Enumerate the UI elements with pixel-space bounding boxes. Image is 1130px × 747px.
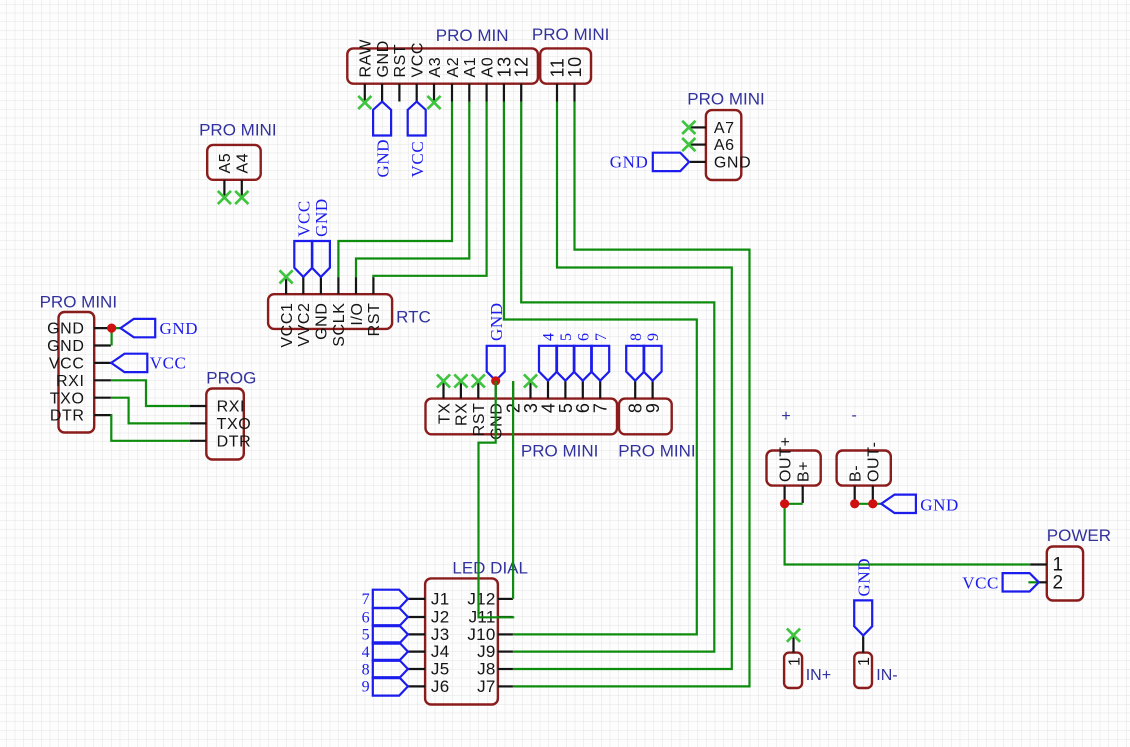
pin B+ of P1 (802, 486, 804, 503)
svg-text:GND: GND (314, 303, 331, 340)
pin J12 of LED DIAL (498, 598, 513, 600)
pin 2 of POWER (1039, 581, 1047, 583)
pin A3 of U1 (433, 84, 435, 102)
pin OUT- of P2 (872, 486, 874, 503)
pin 8 of U7 (634, 381, 636, 399)
net flag 9 at LED DIAL J6 (373, 677, 408, 695)
pin I/O of U4 (355, 277, 357, 294)
net flag 5 at LED DIAL J3 (373, 625, 408, 643)
svg-text:DTR: DTR (217, 433, 252, 450)
net flag GND at U5 (121, 319, 156, 337)
svg-text:GND: GND (47, 321, 84, 338)
pin J9 of LED DIAL (498, 650, 513, 652)
wire U5.GND junction to U5.GND2 (112, 328, 121, 345)
connector U6 PRO MINI body (426, 399, 618, 435)
net flag 8 at LED DIAL J5 (373, 660, 408, 678)
pin A6 of U8 (690, 144, 706, 146)
svg-text:GND: GND (375, 40, 392, 77)
svg-text:1: 1 (856, 657, 873, 667)
svg-text:5: 5 (362, 627, 370, 644)
pin SCLK of U4 (337, 277, 339, 294)
svg-text:J4: J4 (431, 642, 450, 661)
svg-text:VCC: VCC (408, 141, 427, 178)
svg-text:J8: J8 (477, 659, 496, 678)
net flag GND above U4 (312, 241, 330, 277)
net flag VCC at U5 (111, 354, 147, 372)
pin J1 of LED DIAL (408, 598, 425, 600)
svg-text:RST: RST (471, 402, 488, 436)
junction at P1.OUT+ (780, 499, 789, 508)
svg-text:PRO MINI: PRO MINI (199, 121, 276, 140)
svg-text:J6: J6 (431, 677, 450, 696)
svg-text:RAW: RAW (358, 39, 375, 78)
svg-text:6: 6 (575, 333, 592, 341)
svg-text:GND: GND (714, 155, 751, 172)
wire U1.13 to LED DIAL J10 (504, 102, 697, 635)
pin GND of U8 (690, 161, 706, 163)
connector U8 PRO MINI (A7 A6 GND) body (706, 110, 741, 180)
svg-text:DTR: DTR (50, 408, 85, 425)
pin TX of U6 (442, 381, 444, 399)
pin RXI of PROG (190, 405, 207, 407)
no-connect X on U6 pin at x=461 (454, 374, 467, 387)
svg-text:RXI: RXI (56, 373, 84, 390)
svg-text:A4: A4 (235, 153, 252, 174)
pin B- of P2 (854, 486, 856, 503)
svg-text:LED DIAL: LED DIAL (452, 559, 528, 578)
junction at P2.OUT- (868, 499, 877, 508)
connector U5 PRO MINI body (59, 312, 95, 433)
pin J11 of LED DIAL (498, 616, 513, 618)
wire P1.OUT+ to POWER pin1 (785, 504, 1031, 565)
pin A2 of U1 (451, 84, 453, 102)
svg-text:-: - (852, 407, 857, 424)
pin RST of U1 (398, 84, 400, 102)
no-connect X on U4 VCC1 (280, 270, 293, 283)
net flag 8 above U7 (626, 346, 644, 381)
pin 3 of U6 (529, 381, 531, 399)
connector U3 PRO MINI (A5 A4) body (207, 145, 261, 180)
svg-text:TX: TX (436, 403, 453, 425)
pin RX of U6 (460, 381, 462, 399)
pin RST of U4 (372, 277, 374, 294)
svg-text:PROG: PROG (206, 369, 256, 388)
svg-text:J7: J7 (477, 677, 496, 696)
wire U1.12 to LED DIAL J9 (513, 102, 714, 652)
svg-text:1: 1 (786, 657, 803, 667)
net flag GND at U8 (653, 153, 689, 171)
pin GND of U5 (94, 344, 111, 346)
svg-text:A5: A5 (217, 153, 234, 174)
pin J6 of LED DIAL (408, 685, 425, 687)
pin RAW of U1 (364, 84, 366, 102)
pin 9 of U7 (651, 381, 653, 399)
net flag 5 above U6 (556, 346, 574, 381)
net flag VCC below U1 (408, 102, 426, 136)
pin 11 of U2 (556, 84, 558, 102)
wire U6.2 to LED DIAL J12 (512, 381, 514, 599)
svg-text:7: 7 (591, 403, 611, 414)
pin DTR of U5 (94, 414, 111, 416)
pin TXO of U5 (94, 397, 111, 399)
pin 2 of U6 (512, 381, 514, 399)
wire VCC flag to POWER pin2 (1028, 581, 1038, 583)
svg-text:GND: GND (47, 338, 84, 355)
net flag 9 above U7 (644, 346, 662, 381)
net flag GND above IN- (854, 600, 872, 635)
connector J21 LED DIAL body (425, 578, 498, 704)
connector U1 PRO MIN body (347, 48, 538, 83)
svg-text:8: 8 (362, 661, 370, 678)
pin 13 of U1 (503, 84, 505, 102)
svg-text:5: 5 (558, 333, 575, 341)
svg-text:OUT+: OUT+ (777, 436, 794, 482)
net flag 7 above U6 (591, 346, 609, 381)
svg-text:J2: J2 (431, 607, 450, 626)
svg-text:TXO: TXO (50, 390, 85, 407)
svg-text:RXI: RXI (217, 399, 245, 416)
wire U5.DTR to PROG.DTR (111, 415, 190, 441)
pin DTR of PROG (190, 440, 207, 442)
net flag GND below U1 (373, 102, 391, 136)
svg-text:B-: B- (848, 465, 865, 482)
connector U2 PRO MINI body (540, 48, 591, 83)
pin J3 of LED DIAL (408, 633, 425, 635)
svg-text:GND: GND (373, 139, 392, 178)
svg-text:4: 4 (362, 644, 370, 661)
svg-text:RST: RST (366, 303, 383, 337)
connector P4 IN- body (854, 653, 872, 688)
svg-text:GND: GND (160, 319, 199, 338)
pin 4 of U6 (547, 381, 549, 399)
pin VCC of U5 (94, 362, 111, 364)
pin RST of U6 (477, 381, 479, 399)
wire P2 tie to GND flag (855, 503, 882, 505)
svg-text:6: 6 (362, 609, 370, 626)
svg-text:RST: RST (392, 44, 409, 78)
svg-text:A1: A1 (462, 57, 479, 78)
wire U1.A2 to U4.SCLK (338, 102, 452, 278)
svg-text:12: 12 (512, 56, 532, 77)
wire P1.OUT+ to P1.B+ tie (785, 503, 803, 505)
connector P1 (OUT+ B+) body (767, 451, 821, 486)
pin GND of U4 (320, 277, 322, 294)
svg-text:VCC: VCC (150, 354, 187, 373)
pin 10 of U2 (573, 84, 575, 102)
svg-text:VCC: VCC (49, 356, 85, 373)
svg-text:9: 9 (645, 333, 662, 341)
svg-text:A2: A2 (445, 57, 462, 78)
svg-text:VVC2: VVC2 (296, 303, 313, 347)
svg-text:J12: J12 (467, 589, 495, 608)
no-connect X on U3 A5 (218, 191, 231, 204)
svg-text:A3: A3 (427, 57, 444, 78)
svg-text:OUT-: OUT- (866, 441, 883, 482)
svg-text:J10: J10 (467, 625, 495, 644)
svg-text:IN+: IN+ (806, 667, 831, 684)
no-connect X on U1 A3 (427, 96, 440, 109)
pin J8 of LED DIAL (498, 668, 513, 670)
svg-text:VCC1: VCC1 (279, 303, 296, 348)
no-connect X on U6 pin at x=444 (437, 374, 450, 387)
svg-text:PRO MINI: PRO MINI (618, 442, 695, 461)
pin GND of U5 (94, 327, 111, 329)
net flag 4 at LED DIAL J4 (373, 642, 408, 660)
svg-text:VCC: VCC (295, 200, 314, 237)
pin J10 of LED DIAL (498, 633, 513, 635)
net flag 6 at LED DIAL J2 (373, 608, 408, 626)
pin OUT+ of P1 (783, 486, 785, 503)
svg-text:A7: A7 (714, 120, 735, 137)
svg-text:GND: GND (920, 495, 959, 514)
no-connect X on IN+ (787, 629, 800, 642)
no-connect X on U1 RAW (358, 96, 371, 109)
junction on U6 GND pin (491, 376, 500, 385)
connector J20 PROG body (206, 389, 244, 460)
svg-text:PRO MINI: PRO MINI (687, 90, 764, 109)
no-connect X on U6 pin at x=478 (472, 374, 485, 387)
pin VCC1 of U4 (285, 277, 287, 294)
wire U2.10 to LED DIAL J7 (513, 102, 750, 687)
pin 1 of POWER (1030, 563, 1047, 565)
svg-text:VCC: VCC (962, 573, 999, 592)
svg-text:4: 4 (541, 333, 558, 341)
svg-text:J1: J1 (431, 589, 450, 608)
pin 1 of IN- (862, 636, 864, 652)
pin VCC of U1 (416, 84, 418, 102)
svg-text:GND: GND (855, 558, 874, 597)
svg-text:J5: J5 (431, 659, 450, 678)
svg-text:SCLK: SCLK (331, 303, 348, 347)
junction on U5 GND net (107, 324, 116, 333)
net flag 6 above U6 (574, 346, 592, 381)
svg-text:7: 7 (593, 333, 610, 341)
net flag VCC above U4 (294, 241, 312, 277)
pin A4 of U3 (241, 180, 243, 198)
svg-text:IN-: IN- (876, 667, 897, 684)
pin VVC2 of U4 (302, 277, 304, 294)
svg-text:A6: A6 (714, 137, 735, 154)
svg-text:8: 8 (628, 333, 645, 341)
net flag 7 at LED DIAL J1 (373, 590, 408, 608)
pin A7 of U8 (690, 126, 706, 128)
wire U1.A1 to U4.I/O (356, 102, 469, 278)
svg-text:TXO: TXO (217, 416, 252, 433)
pin J7 of LED DIAL (498, 685, 513, 687)
svg-text:RX: RX (454, 403, 471, 426)
pin TXO of PROG (190, 422, 207, 424)
svg-text:+: + (781, 408, 790, 425)
connector P2 (B- OUT-) body (837, 451, 891, 486)
svg-text:POWER: POWER (1047, 526, 1111, 545)
svg-text:7: 7 (362, 591, 370, 608)
pin GND of U1 (381, 84, 383, 102)
RTC U4 body (268, 294, 392, 329)
pin J2 of LED DIAL (408, 616, 425, 618)
pin A0 of U1 (486, 84, 488, 102)
wire U5.RXI to PROG.RXI (111, 380, 190, 406)
wire U2.11 to LED DIAL J8 (513, 102, 732, 670)
svg-text:PRO MINI: PRO MINI (521, 442, 598, 461)
pin RXI of U5 (94, 379, 111, 381)
pin 12 of U1 (520, 84, 522, 102)
svg-text:I/O: I/O (349, 303, 366, 326)
no-connect X on U3 A4 (235, 191, 248, 204)
svg-text:GND: GND (312, 198, 331, 237)
svg-text:J9: J9 (477, 642, 496, 661)
connector J22 POWER body (1047, 547, 1083, 601)
pin 7 of U6 (599, 381, 601, 399)
pin 1 of IN+ (792, 636, 794, 652)
wire U5.TXO to PROG.TXO (111, 398, 190, 424)
svg-text:10: 10 (565, 56, 585, 77)
pin A5 of U3 (223, 180, 225, 198)
junction at P2.B- (850, 499, 859, 508)
svg-text:RTC: RTC (396, 308, 431, 327)
net flag GND above U6 (487, 346, 505, 381)
svg-text:J3: J3 (431, 625, 450, 644)
svg-text:PRO MIN: PRO MIN (436, 26, 509, 45)
svg-text:PRO MINI: PRO MINI (532, 25, 609, 44)
wire U6.GND to LED DIAL J11 (479, 381, 515, 617)
svg-text:B+: B+ (796, 461, 813, 482)
svg-text:VCC: VCC (410, 42, 427, 78)
pin J5 of LED DIAL (408, 668, 425, 670)
connector U7 PRO MINI body (619, 399, 672, 435)
no-connect X on U8 A6 (682, 138, 695, 151)
svg-text:9: 9 (362, 679, 370, 696)
svg-text:2: 2 (1053, 572, 1064, 593)
connector P3 IN+ body (784, 653, 802, 688)
net flag VCC at POWER (1003, 573, 1039, 591)
svg-text:GND: GND (610, 153, 649, 172)
net flag GND at P2 (881, 495, 916, 513)
pin GND of U6 (495, 381, 497, 399)
pin A1 of U1 (468, 84, 470, 102)
pin J4 of LED DIAL (408, 650, 425, 652)
no-connect X on U8 A7 (682, 121, 695, 134)
pin 6 of U6 (582, 381, 584, 399)
pin 5 of U6 (564, 381, 566, 399)
svg-text:PRO MINI: PRO MINI (40, 293, 117, 312)
no-connect X on U6 pin 3 (524, 374, 537, 387)
wire U1.A0 to U4.RST (373, 102, 486, 278)
svg-text:9: 9 (643, 403, 663, 414)
net flag 4 above U6 (539, 346, 557, 381)
